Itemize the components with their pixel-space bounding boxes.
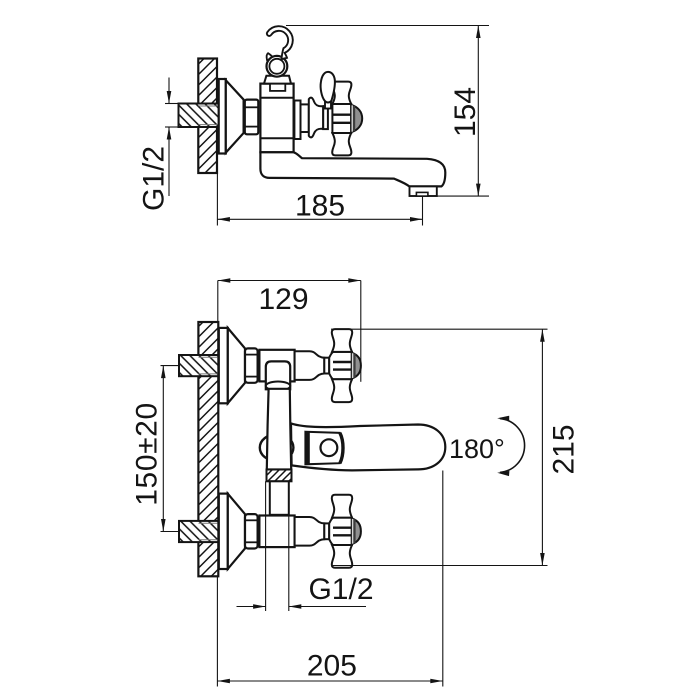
swivel ball joint (view 2): [266, 382, 290, 391]
hanger ring (view 1): [267, 56, 288, 77]
handle top spoke (view 1): [332, 82, 351, 104]
svg-text:180°: 180°: [449, 434, 505, 464]
lever screw (view 2): [321, 439, 338, 456]
body seam lower (view 1): [260, 137, 293, 139]
body elbow (view 2): [266, 361, 290, 389]
dimension 205 (view 2): [216, 577, 218, 687]
outlet thread G1/2 (view 2): [267, 470, 292, 482]
diverter boss (view 2): [260, 434, 294, 461]
spout (view 1): [260, 152, 445, 186]
dimension G1/2 (view 1): [165, 103, 179, 105]
dimension 129 (view 2): [218, 280, 361, 282]
svg-text:205: 205: [307, 650, 357, 683]
hook base ear (view 1): [267, 53, 274, 60]
handle hub dome (view 1): [351, 105, 362, 132]
connector hex nut (view 1): [245, 100, 258, 135]
valve stem step A (view 1): [294, 101, 300, 140]
hot water valve assembly (view 2): [219, 328, 228, 403]
hook base holder (view 1): [264, 76, 291, 84]
extension line top (view 1): [286, 25, 489, 27]
hanging hook (view 1): [267, 26, 293, 59]
handle hub grooves (view 1): [332, 113, 351, 115]
handle neck (view 1): [323, 108, 328, 129]
body tube (view 2): [267, 389, 291, 470]
svg-text:129: 129: [258, 283, 308, 316]
svg-text:150±20: 150±20: [131, 402, 164, 506]
outlet tube lower (view 2): [270, 481, 289, 515]
supply pipe G1/2 (view 1): [179, 104, 219, 128]
spout aerator (view 1): [410, 186, 437, 196]
body cap notch (view 1): [270, 84, 285, 91]
dimension 215 (view 2): [331, 328, 548, 330]
handle bottom spoke (view 1): [332, 133, 351, 155]
handle hub (view 1): [332, 104, 351, 133]
svg-text:215: 215: [547, 424, 580, 474]
escutcheon plate (view 1): [219, 79, 226, 154]
dimension 150±20 (view 2): [161, 365, 180, 367]
wall section (view 1): [198, 59, 217, 174]
handle front spoke knob (view 1): [321, 72, 335, 103]
dimension 154 (view 1): [477, 26, 479, 197]
dimension 185 (view 1): [216, 173, 218, 226]
svg-text:G1/2: G1/2: [138, 146, 171, 211]
svg-text:G1/2: G1/2: [308, 573, 373, 606]
supply pipe bottom (view 2): [179, 521, 218, 542]
dimension G1/2 (view 2): [265, 481, 267, 611]
cold water valve assembly (view 2): [219, 494, 228, 569]
diverter lever blade (view 2): [291, 423, 445, 470]
gland spool (view 1): [309, 98, 323, 138]
svg-text:154: 154: [449, 87, 482, 137]
rotation arc 180° (view 2): [500, 419, 525, 473]
escutcheon cone (view 1): [226, 80, 244, 152]
lever mount block (view 2): [305, 432, 343, 465]
extension line bottom (view 1): [437, 195, 489, 197]
faucet body (view 1): [260, 84, 293, 153]
valve stem step B (view 1): [301, 104, 309, 132]
supply pipe top (view 2): [179, 355, 218, 376]
body seam upper (view 1): [260, 97, 293, 99]
svg-text:185: 185: [295, 190, 345, 223]
handle front spoke stem (view 1): [325, 102, 331, 109]
wall section (view 2): [198, 322, 218, 576]
